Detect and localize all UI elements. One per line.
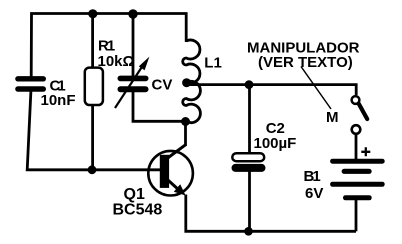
svg-text:L1: L1 (204, 55, 222, 72)
svg-text:10kΩ: 10kΩ (98, 53, 135, 70)
svg-text:BC548: BC548 (113, 202, 163, 219)
svg-text:10nF: 10nF (41, 92, 76, 109)
svg-text:100µF: 100µF (254, 135, 297, 152)
svg-text:6V: 6V (305, 185, 323, 202)
svg-text:B1: B1 (304, 168, 321, 185)
svg-text:M: M (326, 109, 339, 126)
svg-text:(VER TEXTO): (VER TEXTO) (258, 54, 353, 71)
svg-text:CV: CV (152, 76, 173, 93)
